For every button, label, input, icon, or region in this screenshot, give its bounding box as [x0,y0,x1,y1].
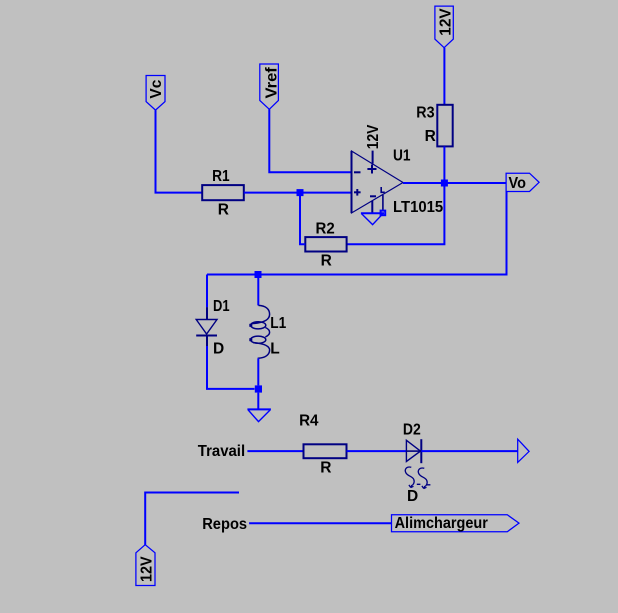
wire R3 to output node [443,146,445,183]
wire node to ground [257,393,259,410]
resistor R4 [299,413,346,477]
wire Travail to R4 [247,450,303,452]
power flag 12V top [435,6,454,48]
svg-text:D: D [407,488,418,505]
wire Vo down to LC node [207,192,507,275]
svg-text:12V: 12V [365,124,382,149]
node junction LC bottom [255,385,262,392]
svg-text:Alimchargeur: Alimchargeur [395,515,488,532]
svg-text:D1: D1 [213,298,230,315]
input flag Vc [146,76,165,111]
svg-text:12V: 12V [437,8,454,36]
svg-text:U1: U1 [393,147,411,164]
wire feedback output node down to R2 [347,183,445,244]
wire 12V bottom stub [145,493,239,545]
wire node down to D1 [206,275,208,308]
svg-text:D: D [213,340,224,357]
wire D1 to bottom bar [207,346,255,389]
svg-text:R2: R2 [316,221,335,238]
wire D2 to arrow [421,450,517,452]
svg-text:R: R [218,201,229,218]
ground op-amp V- [361,211,385,225]
node junction R2 tap [297,189,304,196]
resistor R1 [202,168,244,218]
svg-text:Travail: Travail [198,443,245,460]
diode D1 [196,298,230,357]
wire L1 to bottom bar [257,358,259,385]
svg-text:D2: D2 [403,421,421,438]
node junction LC top [255,271,262,278]
diode D2 LED [403,421,431,505]
wire Repos to Alimchargeur [249,522,391,524]
power flag 12V bottom [136,545,156,586]
wire R4 to D2 [347,450,407,452]
output arrow [518,439,529,462]
svg-text:Vo: Vo [509,175,526,192]
node junction output [441,180,448,187]
wire 12V flag to R3 [443,48,445,105]
input flag Vref [260,64,281,109]
svg-text:R1: R1 [212,168,230,185]
wire node down to L1 [257,275,259,306]
svg-text:R: R [320,460,331,477]
svg-text:Vref: Vref [263,66,280,98]
inductor L1 [249,305,286,358]
ground LC [247,409,271,421]
wire Vref to op-amp inverting input [269,109,352,172]
svg-text:L1: L1 [270,315,286,332]
resistor R2 [305,221,346,270]
resistor R3 [416,104,452,146]
svg-text:R3: R3 [416,104,435,121]
svg-text:Repos: Repos [202,516,247,533]
op-amp U1 LT1015 [352,124,444,216]
svg-text:R4: R4 [299,413,319,430]
output flag Vo [506,173,539,192]
svg-text:Vc: Vc [148,79,165,98]
wire op-amp output to node [403,182,506,184]
wire R1 to op-amp non-inverting input [244,192,352,194]
svg-text:R: R [321,252,332,269]
flag Alimchargeur [392,515,520,532]
wire Vc to R1 [156,110,203,193]
svg-text:L: L [270,341,279,358]
svg-text:LT1015: LT1015 [393,199,444,216]
svg-text:12V: 12V [138,556,155,582]
wire R2 to junction on + input [300,193,305,245]
svg-text:R: R [425,128,436,145]
